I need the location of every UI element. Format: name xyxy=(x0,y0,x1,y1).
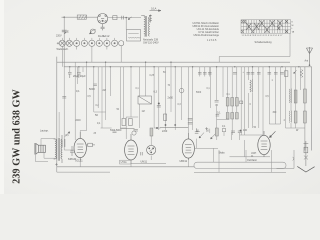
fuse on mains lead xyxy=(304,141,309,166)
wire under magic eye xyxy=(131,162,166,164)
resistor R8 xyxy=(150,128,153,136)
small box above V5 xyxy=(222,129,225,132)
wire v188 xyxy=(187,67,189,167)
fuse box top right xyxy=(285,71,288,77)
plus mark at bus left xyxy=(55,163,58,166)
wire right links xyxy=(286,67,306,128)
svg-text:UCL11: UCL11 xyxy=(75,160,83,163)
wire v151 xyxy=(150,128,152,160)
diode arrow A1 xyxy=(199,133,204,138)
table cross marks xyxy=(241,20,287,33)
wire v248 xyxy=(247,67,249,128)
wire v280 xyxy=(280,67,282,110)
svg-text:2x50: 2x50 xyxy=(168,97,174,100)
resistor R5 hatched xyxy=(294,90,297,103)
wire beside TR2 xyxy=(58,112,60,137)
label under transformer xyxy=(143,39,159,45)
mains cord arrow xyxy=(297,166,314,172)
title: 239 GW und 638 GW (vertical) xyxy=(12,89,23,184)
table frame xyxy=(241,20,291,33)
wire v77 xyxy=(77,67,79,84)
label box V2 xyxy=(120,160,131,164)
capacitor bank C7 xyxy=(233,73,254,74)
tube V4 xyxy=(182,133,194,160)
svg-text:Ant: Ant xyxy=(305,60,309,63)
wire bottom bus left xyxy=(57,166,194,168)
wire speaker links xyxy=(35,139,55,162)
wire v252 xyxy=(252,67,254,128)
wire v200 xyxy=(199,67,201,77)
wire right return xyxy=(277,150,295,168)
svg-text:UY11: UY11 xyxy=(121,161,128,164)
wire v227 xyxy=(227,67,229,112)
node dot row above V5 xyxy=(240,130,242,132)
svg-text:UM11: UM11 xyxy=(141,161,148,164)
label V5 xyxy=(247,152,257,162)
svg-text:Wellensch.: Wellensch. xyxy=(57,48,69,51)
output transformer TR2 xyxy=(54,135,62,163)
capacitor C14 on v64 xyxy=(62,97,66,99)
tube V2 xyxy=(125,134,138,160)
IF can box with cross xyxy=(138,96,152,104)
svg-text:5000: 5000 xyxy=(196,92,202,94)
wire tube output xyxy=(108,17,141,19)
wire bottom bus right xyxy=(194,171,286,173)
junction cluster mid xyxy=(156,103,160,130)
wire mid links xyxy=(80,104,263,148)
lamp dial L4 xyxy=(132,131,136,135)
wire v87 xyxy=(86,62,88,130)
coil L1 xyxy=(250,80,253,93)
resistor squiggle R17 xyxy=(300,70,303,78)
wire v245 xyxy=(244,67,246,157)
plus mark above A2 xyxy=(205,127,208,130)
capacitor bank C8 xyxy=(257,73,284,74)
wire v193 xyxy=(192,67,194,130)
wire v269 xyxy=(268,67,270,124)
wire v165 xyxy=(165,67,167,130)
coil L2 xyxy=(289,89,291,104)
svg-text:1M: 1M xyxy=(142,111,145,113)
capacitor C11 xyxy=(231,131,242,132)
heater pins column xyxy=(149,15,152,23)
resistor R4 hatched xyxy=(235,98,238,107)
arrow 0,1A xyxy=(150,7,162,12)
node antenna junction xyxy=(309,64,311,66)
wire wafer drops xyxy=(62,38,121,67)
frame left border xyxy=(56,57,58,167)
svg-text:0,1: 0,1 xyxy=(217,112,221,115)
IF cluster 1 xyxy=(120,119,138,132)
resistor R9 xyxy=(215,128,218,136)
wire link269 xyxy=(269,110,280,124)
svg-text:2M: 2M xyxy=(103,90,106,92)
tube V1 output pentode xyxy=(74,132,86,160)
frame right border xyxy=(311,67,313,151)
wire v120 xyxy=(119,67,121,128)
wire v70 xyxy=(69,67,71,72)
wire v259 xyxy=(258,67,260,128)
wire v175 xyxy=(174,67,176,130)
svg-text:220V: 220V xyxy=(56,35,62,38)
IF cluster 2 xyxy=(160,114,188,128)
resistor R3 hatched xyxy=(231,98,234,107)
wire v110 xyxy=(109,67,111,96)
svg-text:Skala: Skala xyxy=(219,152,226,155)
arrow mark top right xyxy=(294,70,297,73)
wire v64 xyxy=(63,67,65,150)
wire v83 xyxy=(82,67,84,72)
svg-text:638GW: 638GW xyxy=(68,158,77,161)
resistor row2 R19 xyxy=(231,113,234,120)
antenna ANT xyxy=(306,47,312,65)
svg-text:5000: 5000 xyxy=(89,87,95,91)
pointer arrow to V5 xyxy=(270,131,276,137)
wire v223 xyxy=(222,67,224,97)
capacitor bank C6 xyxy=(198,73,212,74)
resistor R6 hatched xyxy=(304,89,307,103)
svg-text:UM11 Abstimmanzeige: UM11 Abstimmanzeige xyxy=(193,34,219,37)
cathode marks left of V1 xyxy=(70,146,74,156)
svg-text:100: 100 xyxy=(243,129,248,132)
svg-text:Schalterstellung: Schalterstellung xyxy=(255,41,273,44)
wire stubs above detector row xyxy=(197,128,240,162)
resistor row2 R18 xyxy=(226,113,229,120)
svg-text:20µF 30µF: 20µF 30µF xyxy=(73,74,86,78)
wire v106 xyxy=(105,62,107,120)
tube V5 xyxy=(258,131,270,157)
wire v123 xyxy=(123,67,125,118)
wire v232 xyxy=(231,67,233,135)
wire into rectifier box xyxy=(125,18,127,30)
svg-text:1 2 3 4 5: 1 2 3 4 5 xyxy=(207,39,217,42)
svg-text:6,3: 6,3 xyxy=(154,91,158,94)
resistor row2 R20 xyxy=(235,113,238,120)
table row labels xyxy=(292,22,295,34)
capacitor C16 xyxy=(195,132,199,133)
wire v79 xyxy=(78,67,80,72)
svg-text:0,1: 0,1 xyxy=(76,89,80,93)
svg-text:0,1A: 0,1A xyxy=(151,7,157,11)
switch on return xyxy=(293,157,294,160)
rectifier tube U1 (top view) xyxy=(98,14,108,24)
value labels scattered xyxy=(66,72,286,137)
wire v205 xyxy=(204,67,206,77)
wire bottom link row xyxy=(230,156,271,158)
grid resistor beside V1 xyxy=(86,143,95,146)
svg-text:0,25: 0,25 xyxy=(150,75,155,77)
capacitor C9 xyxy=(93,84,97,85)
transformer TR1 xyxy=(141,15,151,36)
label bottom small texts xyxy=(40,122,299,161)
node output junction xyxy=(125,17,127,19)
svg-text:5000: 5000 xyxy=(116,129,122,132)
wire right inner xyxy=(304,67,306,151)
capacitor C12 beside V3 xyxy=(141,152,142,155)
svg-text:1234567891011121314151617: 1234567891011121314151617 xyxy=(242,35,284,37)
wire from table to bus xyxy=(219,33,290,62)
pot arrow near v64 xyxy=(65,132,70,137)
capacitor C4 xyxy=(68,73,72,78)
speaker LS xyxy=(35,143,46,155)
wire bus B xyxy=(64,66,312,68)
wire v154 xyxy=(153,67,155,128)
coil L3 xyxy=(289,111,291,123)
capacitor stack C15 xyxy=(188,119,193,125)
wire v181 xyxy=(181,67,183,120)
diode arrow on output wire xyxy=(128,17,131,20)
resistor R1 (mains dropper, hatched) xyxy=(77,15,86,19)
svg-text:Oszillator: Oszillator xyxy=(247,159,257,162)
wire v263 xyxy=(262,67,264,135)
svg-text:GW 110-240V: GW 110-240V xyxy=(143,42,159,45)
small box B1 xyxy=(240,101,243,104)
wire v98 xyxy=(97,67,99,108)
chassis box under transformer xyxy=(127,30,141,42)
lamp barretter LA1 xyxy=(90,29,96,34)
wire v240 xyxy=(240,67,242,135)
svg-text:E: E xyxy=(67,30,69,34)
svg-text:Drehko: Drehko xyxy=(98,35,106,38)
resistor R2 hatched xyxy=(226,98,229,107)
capacitor C1 on left drop xyxy=(62,30,69,34)
wire v210 xyxy=(209,67,211,77)
wire v237 xyxy=(236,67,238,112)
wire v217 xyxy=(216,67,218,135)
wire bus A xyxy=(57,61,290,63)
wire v171 xyxy=(170,62,172,112)
diode arrow A2 xyxy=(211,134,216,139)
wire v126 xyxy=(126,117,131,167)
wire v276 xyxy=(275,67,277,124)
capacitor C3 on output wire xyxy=(122,16,124,20)
capacitor C2 below tube xyxy=(101,24,105,31)
svg-text:2000: 2000 xyxy=(76,120,82,122)
node plus mark left of wafer xyxy=(57,42,59,44)
wire v211 xyxy=(209,67,211,108)
wire v300 xyxy=(300,67,302,90)
capacitor C5 xyxy=(77,73,81,78)
resistor R16 hatched xyxy=(304,111,307,123)
svg-text:UBF11: UBF11 xyxy=(180,160,188,163)
wire v64 to V1 xyxy=(64,149,74,151)
capacitor C10 xyxy=(113,131,117,132)
tube V3 magic eye (top view) xyxy=(147,145,156,154)
wire v102 xyxy=(101,67,103,128)
choke coil on v64 xyxy=(62,139,65,147)
svg-text:239 GW und 638 GW: 239 GW und 638 GW xyxy=(12,89,23,184)
svg-text:2x50: 2x50 xyxy=(162,130,168,133)
wire v139 xyxy=(138,67,140,128)
svg-text:Lautspr.: Lautspr. xyxy=(40,130,49,133)
capacitor bars row2 xyxy=(216,115,220,117)
wire v146 xyxy=(145,62,147,96)
wire v160 xyxy=(158,67,160,130)
resistor R7 hatched xyxy=(294,111,297,123)
wire scale drops xyxy=(219,150,272,172)
svg-text:5000: 5000 xyxy=(110,130,116,132)
wire v94 xyxy=(93,67,95,112)
wire mains top xyxy=(62,16,98,18)
node bus junctions xyxy=(69,62,299,68)
breaker box on output wire xyxy=(113,16,117,20)
capacitor C13 xyxy=(215,101,219,106)
wire v75 xyxy=(74,62,76,140)
wire left drop xyxy=(63,17,65,66)
terminal circle on v181 xyxy=(179,88,184,93)
dial scale strip xyxy=(194,162,286,168)
wire bottom second line xyxy=(57,167,110,172)
wire v80t xyxy=(79,131,81,167)
wire v131 xyxy=(130,67,132,117)
svg-text:M: M xyxy=(292,25,294,27)
capacitor marks near v158 xyxy=(157,106,161,108)
node mains junction xyxy=(63,16,65,18)
switch S1 wafer contacts xyxy=(59,40,124,46)
